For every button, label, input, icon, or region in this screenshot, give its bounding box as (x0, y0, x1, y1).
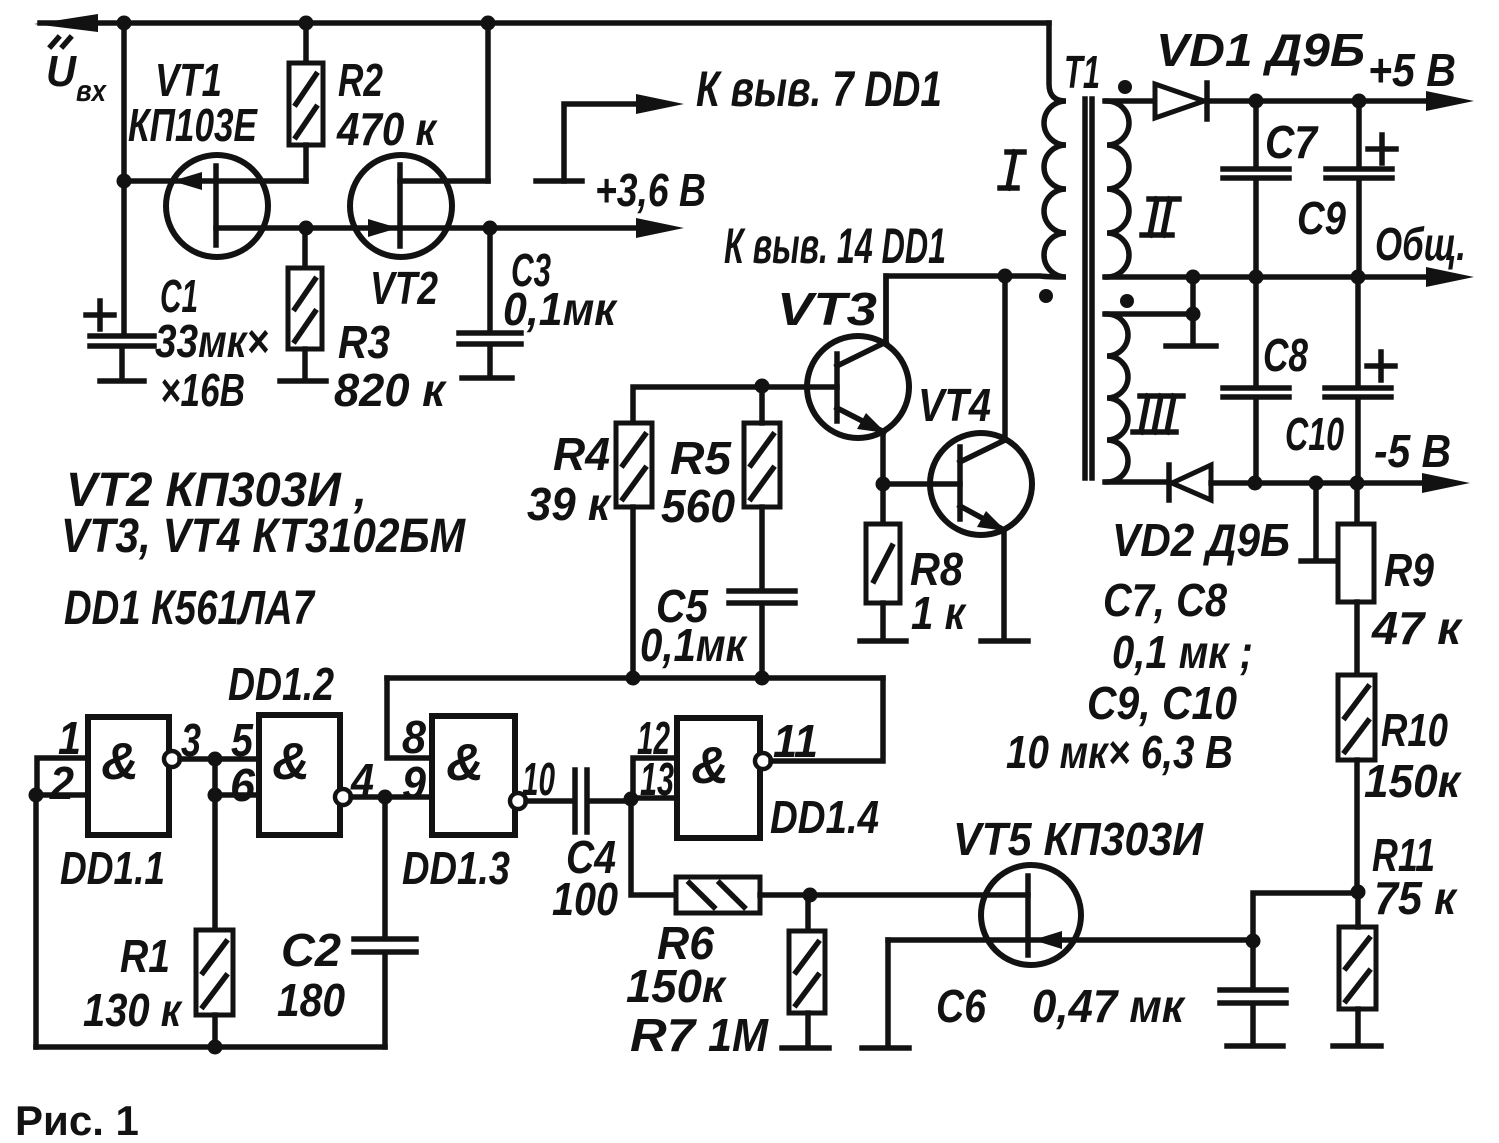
wire feedback left vertical (33, 795, 39, 1047)
resistor R11 (1339, 927, 1376, 1009)
ground under VT5 source (862, 1045, 909, 1051)
svg-text:VT3, VT4 КТ3102БМ: VT3, VT4 КТ3102БМ (61, 510, 466, 563)
capacitor C10 10uF (1325, 388, 1391, 397)
svg-text:Общ.: Общ. (1375, 218, 1466, 270)
wire R1 bottom lead (212, 1015, 218, 1047)
svg-text:VT5 КП303И: VT5 КП303И (953, 813, 1204, 865)
capacitor C4 100pF (575, 770, 587, 832)
wire VT5 source stem to ground (885, 940, 891, 1045)
svg-text:R1: R1 (120, 930, 170, 982)
junction R1 / bottom feedback wire (208, 1040, 223, 1055)
wire +5V rail (1207, 98, 1430, 104)
wire R3 top lead (302, 228, 308, 268)
wire top supply rail from Uvx input to transformer (40, 20, 1049, 26)
arrow to pin 14 DD1 (636, 218, 684, 238)
wire VT3 base rail from R4 (633, 387, 837, 423)
wire VT3 emitter down (880, 432, 886, 484)
svg-text:R2: R2 (338, 54, 383, 106)
svg-text:VD2 Д9Б: VD2 Д9Б (1112, 514, 1290, 566)
wire VT2 source to +3.6V arrow (400, 225, 642, 231)
wire R6 to VT5 (760, 892, 1028, 898)
wire R5 bottom lead to C5 (759, 507, 765, 590)
resistor R3 (288, 268, 322, 349)
junction top rail / R2 branch (299, 16, 314, 31)
ground under R8 (860, 638, 906, 644)
resistor R7 (789, 931, 825, 1013)
wire VT4 collector up (1002, 276, 1008, 440)
svg-text:VT3: VT3 (777, 283, 877, 335)
label winding I (1000, 152, 1024, 188)
label winding III (1133, 396, 1183, 432)
svg-text:6: 6 (230, 759, 255, 811)
wire R11 top lead (1355, 892, 1361, 927)
wire common ground stem (1190, 277, 1196, 343)
diode VD2 D9B (1169, 465, 1211, 500)
svg-text:1М: 1М (708, 1009, 770, 1061)
svg-text:C7: C7 (1265, 116, 1319, 168)
svg-text:47 к: 47 к (1371, 602, 1464, 654)
svg-text:&: & (101, 733, 139, 791)
wire C1 bottom lead (119, 349, 125, 378)
svg-text:VT2: VT2 (370, 262, 438, 314)
svg-text:R5: R5 (670, 432, 732, 484)
svg-text:вх: вх (76, 73, 107, 108)
svg-text:DD1.4: DD1.4 (770, 791, 879, 843)
polarity plus of C9 (1368, 135, 1396, 163)
ground under C6 (1227, 1043, 1283, 1049)
junction rail / R4 (626, 671, 641, 686)
wire C1 branch vertical (121, 23, 127, 334)
wire bottom feedback rail (36, 1044, 385, 1050)
junction common / C9 C10 (1351, 270, 1366, 285)
svg-text:150к: 150к (626, 960, 728, 1012)
arrow output -5V (1422, 473, 1470, 493)
junction C4 pin13 R6 node (624, 792, 639, 807)
svg-text:&: & (272, 733, 310, 791)
wire DD1.4 pin11 to feedback rail (771, 678, 883, 761)
svg-text:C9, C10: C9, C10 (1087, 677, 1237, 729)
svg-text:C7, C8: C7, C8 (1103, 574, 1227, 626)
svg-text:T1: T1 (1064, 46, 1100, 98)
wire R1 top lead (212, 795, 218, 930)
transformer T1 core (1085, 99, 1092, 478)
svg-text:C10: C10 (1285, 408, 1344, 460)
junction rail / C5 (755, 671, 770, 686)
ground under R7 (782, 1045, 829, 1051)
resistor R9 (1338, 524, 1374, 602)
svg-text:+3,6 В: +3,6 В (595, 164, 706, 216)
wire pin4 node to pin9 (385, 794, 432, 800)
wire R8 top lead (880, 484, 886, 524)
svg-text:VD1 Д9Б: VD1 Д9Б (1156, 24, 1365, 76)
wire C5 bottom lead (759, 606, 765, 678)
arrow output +5V (1426, 91, 1474, 111)
phasing dot of winding I (1039, 289, 1053, 303)
wire feedback top rail (387, 675, 883, 681)
svg-text:9: 9 (402, 757, 426, 809)
svg-text:130 к: 130 к (83, 984, 183, 1036)
svg-text:150к: 150к (1364, 755, 1463, 807)
ground under C1 (100, 378, 144, 384)
svg-text:33мк×: 33мк× (155, 315, 269, 367)
svg-text:DD1.2: DD1.2 (228, 658, 334, 710)
svg-text:R10: R10 (1381, 704, 1448, 756)
wire DD1.2 pin4 out (351, 794, 385, 800)
capacitor C6 0.47uF (1220, 990, 1286, 1003)
diode VD1 D9B (1155, 83, 1207, 119)
transistor VT3 KT3102BM npn (807, 336, 909, 438)
resistor R4 (616, 423, 652, 507)
junction R6 / R7 node (803, 888, 818, 903)
ground under R11 (1333, 1043, 1381, 1049)
wire -5V rail (1211, 480, 1430, 486)
svg-text:VT4: VT4 (918, 379, 991, 431)
junction VT1 source / R3 node (299, 221, 314, 236)
capacitor C7 0.1uF (1223, 169, 1289, 178)
svg-text:2: 2 (49, 757, 74, 809)
svg-text:К выв. 7 DD1: К выв. 7 DD1 (696, 61, 942, 117)
ground for DD1 pin 7 (536, 178, 582, 184)
wire C4 to pins 12-13 node (590, 798, 631, 804)
junction primary bottom / VT4 collector (998, 269, 1013, 284)
wire C3 top lead (487, 228, 493, 330)
svg-text:R9: R9 (1384, 544, 1434, 596)
svg-text:+5 В: +5 В (1368, 44, 1456, 96)
svg-text:&: & (691, 737, 729, 795)
svg-text:820 к: 820 к (334, 364, 448, 416)
transistor VT4 KT3102BM npn (883, 433, 1032, 535)
svg-text:КП103Е: КП103Е (128, 99, 258, 151)
svg-text:&: & (446, 734, 484, 792)
junction pin6 / R1 node (208, 788, 223, 803)
transformer T1 primary winding I (886, 23, 1066, 342)
wire R9 to R10 (1354, 602, 1360, 675)
svg-text:180: 180 (277, 974, 345, 1026)
ground under VT4 emitter (981, 638, 1028, 644)
resistor R5 (744, 423, 780, 507)
ground on -5V stem (1301, 558, 1337, 564)
wire R4 bottom lead (630, 507, 636, 678)
wire winding III top lead (1105, 311, 1193, 317)
wire R5 top lead (759, 386, 765, 423)
polarity plus of C10 (1367, 352, 1395, 380)
transformer T1 secondary winding II (1107, 101, 1129, 277)
wire R2 bottom lead to VT1 drain (303, 145, 309, 181)
svg-text:470 к: 470 к (336, 103, 438, 155)
wire C7 leads (1253, 101, 1259, 277)
wire -5V ground stem (1313, 483, 1319, 558)
svg-text:×16В: ×16В (160, 364, 245, 416)
wire R8 bottom lead (880, 603, 886, 638)
svg-text:C8: C8 (1263, 329, 1308, 381)
wire C8 leads (1253, 277, 1259, 483)
arrow to pin 7 DD1 (636, 94, 684, 114)
ground under R3 (280, 378, 326, 384)
svg-text:8: 8 (402, 711, 426, 763)
svg-text:C2: C2 (281, 924, 341, 976)
svg-text:R4: R4 (553, 428, 610, 480)
junction winding III top / stem (1186, 307, 1201, 322)
junction pin3 pin5 node (208, 752, 223, 767)
wire R9 top lead (1354, 483, 1360, 524)
svg-text:U: U (46, 47, 77, 96)
svg-text:39 к: 39 к (527, 478, 613, 530)
label winding II (1142, 199, 1179, 235)
wire R7 top lead (805, 895, 811, 931)
wire feedback rail to pin8 (387, 678, 432, 758)
junction VT3 base / R5 node (755, 379, 770, 394)
resistor R6 (676, 877, 760, 913)
wire node up and right to R10 R11 (1253, 893, 1358, 941)
junction -5V / C10 R9 (1350, 476, 1365, 491)
capacitor C1 polarity plus (86, 301, 114, 329)
phasing dot of winding II (1118, 80, 1132, 94)
label Uвх input voltage (46, 38, 107, 108)
svg-text:0,47 мк: 0,47 мк (1032, 980, 1187, 1032)
logic gate DD1.2 NAND (259, 715, 351, 835)
wire pin13 node down to R6 (631, 799, 676, 895)
wire R3 bottom lead (302, 349, 308, 378)
svg-text:100: 100 (552, 873, 618, 925)
resistor R10 (1338, 675, 1375, 760)
wire C6 top lead (1250, 941, 1256, 988)
junction VT2 source / C3 node (483, 221, 498, 236)
wire common rail from winding II bottom (1105, 274, 1430, 280)
ground under C3 (462, 375, 512, 381)
wire C6 bottom lead (1250, 1006, 1256, 1043)
junction VT5 C6 R11 node (1246, 934, 1261, 949)
capacitor C3 0.1uF (459, 333, 521, 344)
wire winding III bottom to VD2 (1105, 479, 1169, 485)
wire pin12 tie down to pin13 (631, 758, 677, 798)
wire C9 leads (1356, 101, 1362, 277)
junction pin4 pin9 C2 node (378, 790, 393, 805)
svg-text:0,1 мк ;: 0,1 мк ; (1112, 626, 1253, 678)
transistor VT5 KP303I n-channel JFET (888, 865, 1253, 965)
svg-text:C6: C6 (936, 980, 986, 1032)
wire C10 leads (1355, 277, 1361, 483)
wire R10 to R11 node (1354, 760, 1360, 892)
capacitor C9 10uF (1326, 169, 1392, 178)
svg-text:DD1 К561ЛА7: DD1 К561ЛА7 (64, 582, 316, 635)
resistor R2 (289, 63, 323, 145)
wire C3 bottom lead (487, 347, 493, 375)
wire C2 top lead (382, 797, 388, 937)
junction +5V / C7 (1249, 94, 1264, 109)
wire DD1.1 inputs tie (36, 758, 88, 795)
wire VT4 emitter down (1001, 530, 1007, 638)
transformer T1 secondary winding III (1107, 314, 1128, 482)
resistor R8 (866, 524, 900, 603)
junction -5V / ground stem (1309, 476, 1324, 491)
svg-text:DD1.1: DD1.1 (60, 842, 165, 894)
svg-text:1 к: 1 к (911, 587, 967, 639)
svg-text:Рис. 1: Рис. 1 (15, 1097, 139, 1143)
svg-text:75 к: 75 к (1374, 872, 1459, 924)
junction top rail / C1 branch (117, 16, 132, 31)
junction common / C7 C8 (1249, 270, 1264, 285)
svg-text:C9: C9 (1297, 192, 1346, 244)
logic gate DD1.3 NAND (432, 716, 526, 835)
logic gate DD1.1 NAND (88, 717, 180, 835)
junction +5V / C9 (1352, 94, 1367, 109)
wire VT3 collector up (883, 276, 889, 342)
svg-text:R7: R7 (630, 1009, 698, 1061)
capacitor C1 33uF 16V electrolytic (90, 336, 154, 346)
arrow output common (1426, 267, 1474, 287)
wire DD1.3 pin10 to C4 (526, 798, 572, 804)
svg-text:0,1мк: 0,1мк (640, 619, 748, 671)
wire R11 bottom lead (1355, 1009, 1361, 1043)
junction VT3 emitter / VT4 base / R8 (876, 477, 891, 492)
svg-text:-5 В: -5 В (1374, 425, 1451, 477)
phasing dot of winding III (1120, 294, 1134, 308)
junction VT1 gate node (117, 174, 132, 189)
transistor VT2 KP303I n-channel JFET (306, 155, 488, 257)
svg-text:560: 560 (661, 480, 735, 532)
wire R7 bottom lead (805, 1013, 811, 1045)
capacitor C8 0.1uF (1223, 388, 1289, 397)
wire R2 top lead (303, 23, 309, 63)
junction top rail / VT2 drain branch (481, 16, 496, 31)
junction DD1.1 input feedback node (29, 788, 44, 803)
junction common / ground stem (1186, 270, 1201, 285)
wire winding II top to VD1 (1105, 98, 1155, 104)
svg-text:0,1мк: 0,1мк (503, 283, 618, 335)
junction -5V / C8 (1248, 476, 1263, 491)
arrow input Uvx pointing left (34, 14, 98, 32)
wire C2 bottom lead (382, 955, 388, 1047)
logic gate DD1.4 NAND (677, 718, 771, 838)
junction node R10 R11 VT5 (1351, 885, 1366, 900)
ground at transformer common (1166, 343, 1216, 349)
capacitor C2 180pF (354, 939, 416, 952)
resistor R1 (196, 930, 233, 1015)
svg-text:10 мк× 6,3 В: 10 мк× 6,3 В (1006, 726, 1233, 778)
transistor VT1 KP103E p-channel JFET (124, 155, 306, 257)
wire DD1.1 pin3 to DD1.2 pin5 (180, 756, 259, 762)
wire ground stem to pin7 arrow (564, 104, 642, 181)
svg-text:DD1.3: DD1.3 (402, 842, 510, 894)
svg-text:10: 10 (522, 753, 555, 805)
svg-text:К выв. 14 DD1: К выв. 14 DD1 (724, 218, 946, 274)
capacitor C5 0.1uF (729, 591, 795, 603)
svg-text:R3: R3 (338, 316, 390, 368)
wire VT2 drain to top rail (485, 23, 491, 181)
wire pin3 node to pin6 (215, 759, 259, 795)
